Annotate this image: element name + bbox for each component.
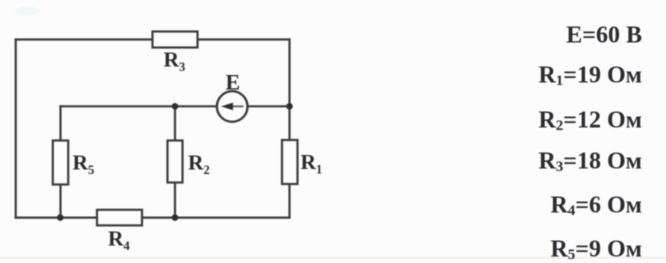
wire top rail right segment [198, 38, 290, 40]
wire right side between node and R1 [288, 106, 290, 140]
wire bottom rail left segment [16, 217, 97, 219]
svg-text:R4=6 Ом: R4=6 Ом [550, 193, 642, 220]
svg-text:R1=19 Ом: R1=19 Ом [538, 63, 642, 90]
svg-text:R5=9 Ом: R5=9 Ом [550, 237, 642, 263]
wire top rail left segment [16, 38, 153, 40]
node junction R2 top [172, 103, 179, 110]
resistor R5 [53, 141, 68, 185]
resistor R2 [168, 141, 183, 183]
node junction right rail [286, 103, 293, 110]
faint bottom video band [0, 257, 666, 259]
wire middle rail left segment [61, 105, 176, 107]
wire source E to right node [247, 105, 289, 107]
resistor R1 [282, 140, 298, 184]
wire right side below R1 [288, 184, 290, 218]
wire middle rail to source E [175, 105, 217, 107]
wire right side upper segment [288, 40, 290, 107]
wire left side (top-left corner to bottom-left corner) [15, 40, 17, 218]
wire R2 branch upper [174, 106, 176, 140]
faint artifact smudge top-left [15, 7, 39, 16]
wire R5 branch lower [59, 185, 61, 218]
node junction R5 bottom [57, 214, 64, 221]
svg-text:R3=18 Ом: R3=18 Ом [538, 149, 642, 176]
EMF source E arrow [221, 103, 244, 111]
EMF source E circle [217, 91, 248, 122]
svg-text:E: E [226, 70, 241, 95]
wire bottom rail middle segment [142, 217, 290, 219]
svg-text:E=60 В: E=60 В [566, 23, 642, 49]
resistor R3 [153, 32, 198, 48]
wire R5 branch upper [59, 106, 61, 140]
wire R2 branch lower [174, 183, 176, 218]
node junction R2 bottom [172, 214, 179, 221]
svg-text:R2=12 Ом: R2=12 Ом [538, 108, 642, 135]
resistor R4 [97, 210, 142, 226]
